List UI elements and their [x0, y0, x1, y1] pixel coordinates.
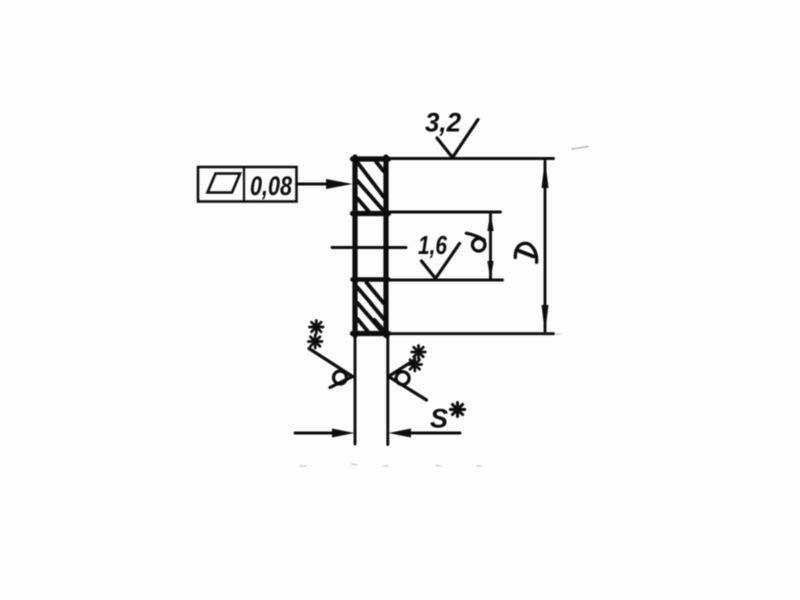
left symbol asterisks — [308, 321, 323, 349]
washer hatch/hole divider upper — [353, 211, 389, 216]
bottom face extension line — [389, 332, 554, 335]
right symbol asterisks — [408, 346, 425, 372]
arrowhead D bottom — [542, 305, 549, 334]
dimension line S right segment — [408, 432, 460, 435]
svg-text:1,6: 1,6 — [418, 230, 447, 260]
leader arrowhead — [326, 179, 353, 189]
top face extension line — [388, 157, 554, 160]
arrowhead S right — [389, 429, 412, 438]
scan specks — [300, 334, 560, 466]
washer section right border — [383, 157, 388, 336]
washer bottom edge — [353, 331, 389, 336]
label S asterisk — [450, 403, 464, 417]
roughness mark 1,6 — [422, 244, 460, 279]
svg-text:S: S — [430, 404, 448, 434]
hatching upper section — [358, 162, 384, 212]
arrowhead d bottom — [487, 261, 493, 280]
svg-text:0,08: 0,08 — [250, 171, 292, 201]
hatching lower section — [358, 283, 384, 332]
label d — [466, 233, 485, 251]
washer section left border — [352, 157, 357, 336]
roughness mark 3,2 — [437, 120, 478, 158]
dimension line S left segment — [295, 432, 335, 435]
centerline — [332, 246, 406, 249]
left as-is roughness symbol — [309, 349, 353, 388]
right as-is roughness symbol — [389, 360, 427, 400]
right lower extension line — [386, 336, 389, 445]
hole bottom extension line — [389, 279, 503, 282]
leader line — [297, 183, 341, 186]
arrowhead D top — [542, 159, 549, 188]
dimension line d — [489, 214, 492, 278]
arrowhead S left — [332, 429, 355, 438]
arrowhead d top — [487, 213, 493, 232]
dimension line D — [544, 161, 547, 331]
washer top edge — [353, 156, 389, 161]
left lower extension line — [354, 336, 357, 444]
svg-text:3,2: 3,2 — [425, 108, 461, 138]
scan artifact dash — [572, 147, 588, 150]
tolerance frame divider — [243, 167, 245, 202]
tolerance frame box — [198, 167, 297, 202]
washer hole/hatch divider lower — [353, 277, 389, 282]
label D — [515, 243, 536, 262]
hole top extension line — [389, 211, 501, 214]
flatness symbol parallelogram — [208, 174, 241, 193]
